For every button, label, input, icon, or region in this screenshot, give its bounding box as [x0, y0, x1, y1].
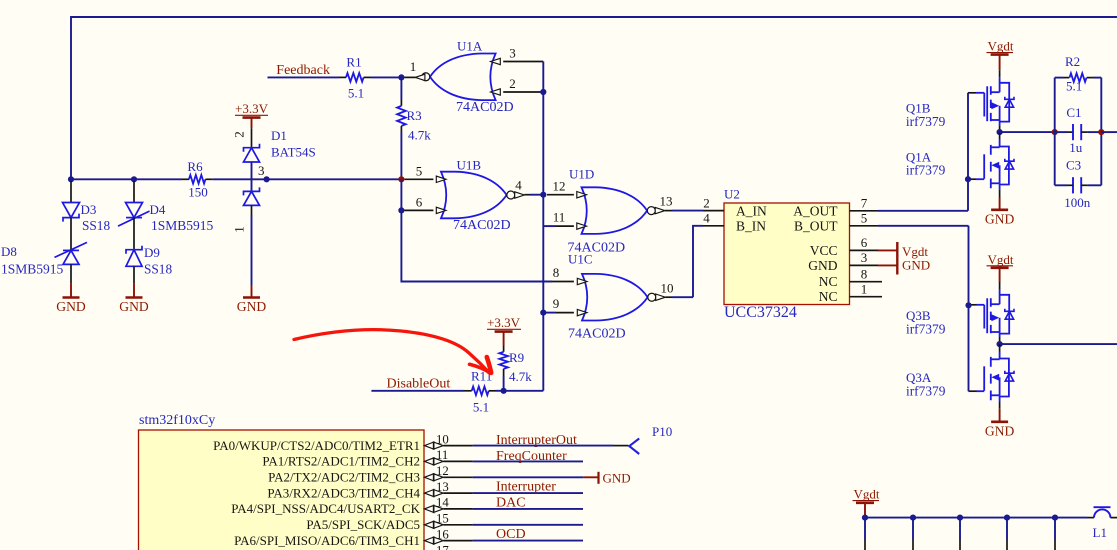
wire R1 to node [371, 76, 402, 78]
svg-text:D4: D4 [150, 202, 166, 217]
wire Vgdt to Q1B drain [999, 70, 1001, 77]
wire mid node to Q1A drain [999, 132, 1001, 139]
U1A pin 3 input wire [503, 61, 543, 63]
wire Vgdt to Q3B drain [999, 282, 1001, 289]
op-amp? no - NOR gate U1A 74AC02D [430, 54, 496, 101]
svg-text:irf7379: irf7379 [906, 383, 946, 398]
svg-text:13: 13 [660, 194, 673, 209]
node junction snubber right [1098, 129, 1104, 135]
svg-text:5: 5 [861, 211, 868, 226]
wire top frame horizontal [71, 16, 1117, 18]
U1C pin 9 input wire [543, 312, 556, 314]
U1D pin 12 input wire [547, 194, 574, 196]
NOR gate U1B 74AC02D [441, 172, 507, 219]
svg-text:irf7379: irf7379 [906, 114, 946, 129]
wire D8 to GND [70, 264, 72, 283]
snubber right rail [1100, 78, 1102, 186]
node junction U1A pin2 [540, 89, 546, 95]
svg-text:4: 4 [703, 211, 710, 226]
svg-text:B_OUT: B_OUT [794, 218, 838, 233]
transistor Q1A irf7379 [991, 146, 1000, 148]
node junction U1B out / U1D pin12 [540, 192, 546, 198]
transistor Q3B irf7379 [991, 303, 1000, 305]
svg-text:GND: GND [902, 257, 930, 272]
svg-text:irf7379: irf7379 [906, 163, 946, 178]
wire bottom rail drop 1 [864, 518, 866, 540]
svg-text:74AC02D: 74AC02D [453, 218, 511, 233]
svg-text:U1A: U1A [457, 39, 483, 54]
wire bottom rail drop 3 [959, 518, 961, 540]
wire bottom rail drop 5 [1054, 518, 1056, 540]
svg-text:GND: GND [119, 299, 149, 314]
svg-text:BAT54S: BAT54S [271, 145, 316, 160]
power port GND at stm32 pin 12 [584, 476, 599, 478]
wire R11 to junction [496, 390, 505, 392]
wire Q3A source to GND [999, 395, 1001, 401]
node junction bottom rail 5 [1052, 515, 1058, 521]
ground symbol at Q1A [991, 209, 1008, 212]
U2 pin 5 wire B_OUT [850, 225, 879, 227]
svg-text:Interrupter: Interrupter [496, 480, 556, 495]
svg-text:74AC02D: 74AC02D [568, 327, 626, 342]
wire D3 to D8 [70, 218, 72, 251]
wire Q3 mid node to right edge [1000, 343, 1117, 345]
svg-text:DisableOut: DisableOut [387, 377, 451, 392]
red annotation arrow [294, 330, 490, 373]
U1A pin 2 input wire [503, 91, 543, 93]
U2 pin 7 wire A_OUT [850, 210, 879, 212]
wire U1B output net vertical [542, 62, 544, 391]
svg-text:6: 6 [416, 195, 423, 210]
svg-text:GND: GND [985, 211, 1015, 226]
wire Feedback [268, 76, 340, 78]
svg-text:9: 9 [553, 296, 560, 311]
resistor R1 [339, 76, 346, 78]
svg-text:PA1/RTS2/ADC1/TIM2_CH2: PA1/RTS2/ADC1/TIM2_CH2 [262, 454, 420, 469]
node junction U1B pin6 [398, 207, 404, 213]
svg-text:PA3/RX2/ADC3/TIM2_CH4: PA3/RX2/ADC3/TIM2_CH4 [267, 485, 420, 500]
node junction bottom rail 3 [957, 515, 963, 521]
svg-text:OCD: OCD [496, 527, 526, 542]
svg-text:8: 8 [553, 265, 560, 280]
wire R3 to main bus [400, 132, 402, 179]
svg-text:R2: R2 [1065, 54, 1080, 69]
svg-text:C3: C3 [1066, 157, 1081, 172]
svg-text:13: 13 [436, 480, 449, 494]
U2 pin 6 wire VCC [850, 249, 879, 251]
svg-text:R3: R3 [407, 108, 422, 123]
svg-text:PA0/WKUP/CTS2/ADC0/TIM2_ETR1: PA0/WKUP/CTS2/ADC0/TIM2_ETR1 [213, 438, 420, 453]
ground symbol at Q3A [991, 420, 1008, 423]
svg-text:Vgdt: Vgdt [988, 39, 1014, 54]
svg-text:stm32f10xCy: stm32f10xCy [139, 413, 215, 428]
svg-text:D3: D3 [81, 202, 97, 217]
U2 pin 3 wire GND [850, 264, 879, 266]
wire to R11 junction [504, 390, 543, 392]
U1D pin 13 output wire [655, 207, 665, 213]
svg-text:GND: GND [985, 423, 1015, 438]
svg-text:1: 1 [232, 226, 247, 233]
svg-text:17: 17 [436, 543, 449, 550]
wire main node D3-D4-R6-D1-R3 [71, 178, 182, 180]
U2 pin 2 wire A_IN [703, 210, 724, 212]
node junction Q1 midpoint [997, 129, 1003, 135]
node junction Q3B gate [965, 302, 971, 308]
svg-text:11: 11 [553, 210, 566, 225]
svg-text:U1B: U1B [457, 158, 482, 173]
svg-text:150: 150 [188, 185, 208, 200]
svg-text:P10: P10 [652, 424, 672, 439]
svg-text:VCC: VCC [810, 243, 838, 258]
svg-text:D9: D9 [144, 245, 160, 260]
node junction main bus / U1B pin5 [398, 176, 404, 182]
node junction at D3 [68, 176, 74, 182]
U1D pin 11 input wire [543, 225, 556, 227]
wire left frame vertical [70, 16, 72, 179]
resistor R11 [464, 390, 472, 392]
svg-text:10: 10 [661, 281, 674, 296]
svg-text:Feedback: Feedback [276, 63, 330, 78]
U2 pin 8 wire NC [850, 281, 883, 283]
svg-text:NC: NC [819, 289, 838, 304]
ground symbol for D9 [126, 296, 143, 299]
svg-text:GND: GND [808, 258, 837, 273]
pin 3 of D1 [251, 162, 253, 179]
svg-text:12: 12 [553, 179, 566, 194]
U1C pin 10 output wire [656, 294, 666, 300]
svg-text:Vgdt: Vgdt [988, 252, 1014, 267]
svg-text:5.1: 5.1 [473, 400, 489, 415]
transistor Q1B irf7379 [991, 91, 1000, 93]
diode D3 SS18 [70, 181, 72, 203]
U2 pin 4 wire B_IN [703, 225, 724, 227]
wire mid node to Q3A drain [999, 344, 1001, 351]
wire snubber to right edge [1101, 131, 1117, 133]
resistor R3 [400, 77, 402, 99]
node junction R9-R11 [501, 388, 507, 394]
svg-text:3: 3 [861, 250, 868, 265]
power bar Vgdt/GND at U2 [896, 242, 898, 275]
svg-text:1SMB5915: 1SMB5915 [1, 262, 64, 277]
svg-text:NC: NC [819, 274, 838, 289]
svg-text:Vgdt: Vgdt [854, 487, 880, 502]
pin 2 of D1 [251, 128, 253, 148]
svg-text:U2: U2 [724, 187, 740, 202]
wire bottom rail drop 2 [912, 518, 914, 540]
svg-text:SS18: SS18 [144, 262, 172, 277]
U1B pin 6 input wire [405, 209, 434, 211]
connector P10 [614, 445, 629, 447]
svg-text:+3.3V: +3.3V [487, 315, 521, 330]
svg-text:3: 3 [258, 163, 265, 178]
NOR gate U1D 74AC02D [582, 187, 648, 234]
svg-text:2: 2 [703, 196, 710, 211]
microcontroller U? stm32f10xCy body [139, 430, 425, 550]
diode D1 BAT54S bottom half [251, 179, 253, 191]
svg-text:A_IN: A_IN [736, 203, 767, 218]
svg-text:GND: GND [56, 299, 86, 314]
svg-text:GND: GND [237, 299, 267, 314]
svg-text:C1: C1 [1066, 105, 1081, 120]
svg-text:PA6/SPI_MISO/ADC6/TIM3_CH1: PA6/SPI_MISO/ADC6/TIM3_CH1 [234, 533, 420, 548]
diode D1 BAT54S top half [244, 148, 260, 162]
NOR gate U1C 74AC02D [582, 274, 648, 321]
svg-text:PA2/TX2/ADC2/TIM2_CH3: PA2/TX2/ADC2/TIM2_CH3 [268, 470, 420, 485]
svg-text:2: 2 [509, 76, 516, 91]
svg-text:B_IN: B_IN [736, 218, 766, 233]
svg-text:11: 11 [436, 448, 448, 462]
wire Q3B source to mid node [999, 332, 1001, 337]
svg-text:L1: L1 [1093, 525, 1107, 540]
svg-text:16: 16 [436, 527, 449, 541]
svg-text:UCC37324: UCC37324 [724, 304, 797, 321]
svg-text:3: 3 [509, 46, 516, 61]
wire down-left column to U1C pin8 [401, 210, 552, 281]
svg-text:GND: GND [603, 470, 631, 485]
node junction bottom rail 2 [910, 515, 916, 521]
node junction D1 pin3 on main bus [264, 176, 270, 182]
svg-text:PA4/SPI_NSS/ADC4/USART2_CK: PA4/SPI_NSS/ADC4/USART2_CK [231, 501, 420, 516]
svg-text:1u: 1u [1069, 140, 1083, 155]
svg-text:D8: D8 [1, 244, 17, 259]
svg-text:1SMB5915: 1SMB5915 [151, 218, 214, 233]
wire U2 B_OUT to Q3 gates [878, 225, 969, 227]
svg-text:14: 14 [436, 496, 449, 510]
capacitor C3 [1072, 177, 1074, 193]
diode D8 1SMB5915 [63, 250, 79, 264]
ground symbol for D8 [63, 296, 80, 299]
svg-text:1: 1 [861, 281, 868, 296]
svg-text:5.1: 5.1 [348, 86, 364, 101]
node junction Q1A gate [965, 176, 971, 182]
svg-text:4.7k: 4.7k [408, 128, 431, 143]
resistor R6 [182, 178, 189, 180]
node junction U1C pin9 [540, 310, 546, 316]
node junction bottom rail 4 [1004, 515, 1010, 521]
wire R9 to junction [503, 376, 505, 391]
wire U1C out riser to U2 B_IN [693, 226, 703, 297]
svg-text:1: 1 [410, 59, 417, 74]
pin 1 of D1 [251, 205, 253, 215]
resistor R2 [1055, 77, 1063, 79]
U1A pin 1 output wire [405, 76, 416, 78]
svg-text:7: 7 [861, 196, 868, 211]
wire Q1A source to GND [999, 183, 1001, 189]
wire bottom Vgdt rail [865, 517, 1087, 519]
inductor L1 [1087, 517, 1094, 519]
svg-text:5.1: 5.1 [1066, 79, 1082, 94]
wire Q1 mid node to snubber [1000, 131, 1055, 133]
driver IC U2 UCC37324 body [724, 203, 850, 305]
diode D9 SS18 [126, 250, 142, 267]
svg-text:PA5/SPI_SCK/ADC5: PA5/SPI_SCK/ADC5 [306, 517, 420, 532]
wire Q1B source to mid node [999, 120, 1001, 126]
svg-text:4: 4 [515, 178, 522, 193]
node junction bottom rail 1 [862, 515, 868, 521]
wire U2 A_OUT to Q1 gates [878, 210, 968, 212]
svg-text:D1: D1 [271, 128, 287, 143]
svg-text:A_OUT: A_OUT [793, 203, 838, 218]
U1C pin 8 input wire [552, 281, 574, 283]
svg-text:8: 8 [861, 266, 868, 281]
svg-text:DAC: DAC [496, 495, 526, 510]
svg-text:4.7k: 4.7k [509, 369, 532, 384]
svg-text:5: 5 [416, 164, 423, 179]
capacitor C1 [1055, 131, 1067, 133]
snubber left rail [1054, 78, 1056, 186]
U1B pin 5 input wire [405, 178, 434, 180]
svg-text:2: 2 [232, 131, 247, 138]
svg-text:+3.3V: +3.3V [235, 101, 269, 116]
U2 pin 1 wire NC [850, 296, 883, 298]
resistor R9 [503, 346, 505, 352]
wire node to U1B pin6 [400, 179, 402, 210]
node junction at D4 [131, 176, 137, 182]
wire D1 to GND [251, 215, 253, 285]
transistor Q3A irf7379 [991, 358, 1000, 360]
ground symbol for D1 [243, 296, 260, 299]
diode D4 1SMB5915 [133, 181, 135, 203]
svg-text:6: 6 [861, 235, 868, 250]
svg-text:SS18: SS18 [82, 218, 110, 233]
svg-text:R9: R9 [509, 350, 524, 365]
svg-text:10: 10 [436, 432, 449, 446]
node junction snubber left [1052, 129, 1058, 135]
svg-text:U1C: U1C [568, 252, 593, 267]
svg-text:U1D: U1D [569, 167, 594, 182]
wire D4 to D9 [133, 218, 135, 250]
wire bottom rail drop 4 [1006, 518, 1008, 540]
svg-text:R6: R6 [187, 159, 203, 174]
svg-text:74AC02D: 74AC02D [456, 100, 514, 115]
wire DisableOut [371, 390, 464, 392]
svg-text:R1: R1 [346, 55, 361, 70]
node junction R1-R3-U1A [398, 74, 404, 80]
svg-text:12: 12 [436, 464, 449, 478]
wire D9 to GND [133, 266, 135, 283]
svg-text:100n: 100n [1064, 195, 1091, 210]
svg-text:15: 15 [436, 512, 449, 526]
svg-text:irf7379: irf7379 [906, 321, 946, 336]
node junction Q3 midpoint [997, 341, 1003, 347]
U1B pin 4 output wire [515, 192, 525, 198]
svg-text:InterrupterOut: InterrupterOut [496, 433, 577, 448]
svg-text:FreqCounter: FreqCounter [496, 449, 567, 464]
